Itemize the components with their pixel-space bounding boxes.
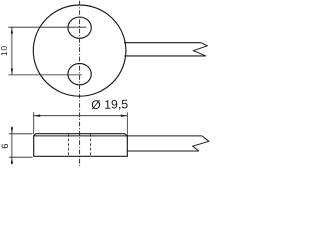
arrowhead up (dim 10): [11, 27, 13, 33]
cable top edge (top view): [124, 42, 201, 44]
cable bottom edge (top view): [125, 55, 206, 57]
extension line (hole H1 center): [8, 26, 86, 28]
arrowhead down onto top ext (dim 6): [11, 127, 13, 133]
extension line left (dia 19.5): [33, 112, 35, 134]
arrowhead right (dim 19.5): [121, 115, 127, 117]
hidden hole edge left (side view): [68, 134, 70, 156]
housing outline (top view big circle): [33, 5, 126, 96]
svg-text:6: 6: [0, 144, 10, 149]
hidden hole edge right (side view): [90, 134, 92, 156]
dimension line 19.5: [34, 115, 128, 117]
extension line top (dim 6): [9, 133, 33, 135]
centerline (vertical dash-dot axis through both views): [79, 1, 81, 166]
extension line bottom (dim 6): [9, 156, 33, 158]
arrowhead up onto bottom ext (dim 6): [11, 157, 13, 163]
hole H2 (bottom): [68, 64, 91, 85]
extension line (hole H2 center): [8, 74, 82, 76]
rim edge line + cable top edge (side view): [34, 135, 202, 137]
dimension line 10: [11, 27, 13, 75]
side view outline (disc profile): [34, 134, 128, 157]
arrowhead left (dim 19.5): [34, 115, 40, 117]
extension line right (dia 19.5): [126, 112, 128, 137]
cable break symbol (top view): [194, 43, 208, 56]
svg-text:Ø 19,5: Ø 19,5: [91, 97, 128, 112]
dimension line 6: [11, 127, 13, 165]
cable break symbol (side view): [193, 136, 209, 151]
hole H1 (top): [68, 17, 91, 38]
cable bottom edge (side view): [127, 150, 199, 152]
svg-text:10: 10: [0, 45, 9, 56]
arrowhead down (dim 10): [11, 69, 13, 75]
